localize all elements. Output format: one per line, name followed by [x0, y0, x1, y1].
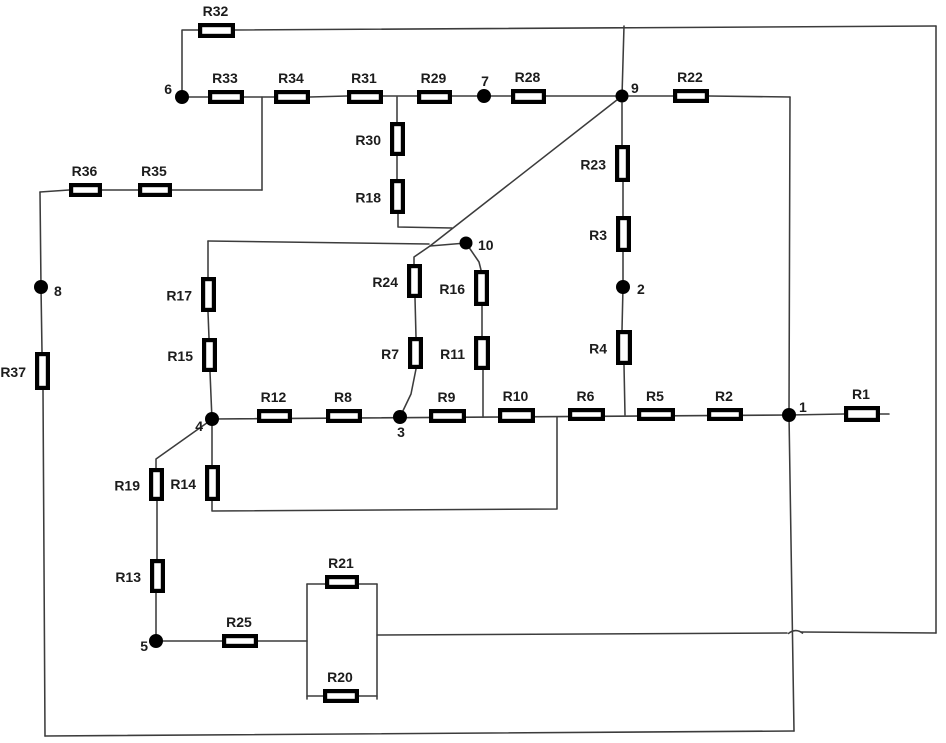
svg-text:1: 1	[799, 399, 807, 415]
wire R16 to R11	[481, 306, 483, 336]
svg-text:R28: R28	[515, 69, 541, 85]
wire node 2 to R4	[622, 287, 623, 330]
resistor R23	[580, 147, 628, 180]
node 4	[195, 412, 219, 434]
wire lower-right horizontal (right of hop)	[801, 632, 936, 633]
wire bottom bus	[45, 731, 794, 736]
resistor R34	[276, 70, 308, 102]
wire corner to R36	[40, 190, 69, 192]
svg-text:R7: R7	[381, 346, 399, 362]
resistor R36	[71, 163, 100, 195]
node 9	[616, 80, 640, 103]
resistor R18	[355, 181, 403, 212]
wire R30 to R18	[396, 156, 398, 179]
svg-text:R13: R13	[115, 569, 141, 585]
svg-text:R1: R1	[852, 386, 870, 402]
svg-text:R23: R23	[580, 157, 606, 173]
wire parallel box left rail	[306, 584, 308, 699]
resistor R11	[440, 338, 488, 368]
svg-text:R21: R21	[328, 555, 354, 571]
svg-text:R10: R10	[503, 388, 529, 404]
wire R24 to R7	[415, 298, 416, 337]
svg-text:4: 4	[195, 418, 203, 434]
resistor R10	[500, 388, 533, 421]
resistor R24	[372, 266, 420, 296]
wire node 9 to R22	[622, 95, 673, 97]
svg-text:9: 9	[631, 80, 639, 96]
wire R31 to R29	[383, 95, 417, 97]
svg-text:R14: R14	[170, 476, 196, 492]
resistor R2	[709, 388, 741, 419]
wire R13 to R19	[156, 501, 158, 559]
svg-text:R9: R9	[438, 389, 456, 405]
resistor R14	[170, 467, 218, 499]
svg-text:R15: R15	[167, 348, 193, 364]
resistor R1	[846, 386, 878, 420]
resistor R20	[325, 669, 357, 701]
svg-text:R36: R36	[72, 163, 98, 179]
svg-text:R5: R5	[646, 388, 664, 404]
resistor R3	[589, 218, 629, 250]
node 6	[164, 81, 189, 104]
wire junction to node 10	[430, 243, 466, 246]
resistor R9	[431, 389, 464, 421]
wire node 4 to R15	[210, 372, 212, 420]
resistor R28	[513, 69, 544, 102]
resistor R31	[349, 70, 381, 102]
wire R19 to node 4	[156, 420, 211, 468]
svg-text:R24: R24	[372, 274, 398, 290]
wire diagonal node 9 to node 10	[430, 96, 622, 246]
svg-text:R37: R37	[0, 364, 26, 380]
wire node 7 to R28	[484, 95, 511, 97]
svg-text:R2: R2	[715, 388, 733, 404]
resistor R25	[224, 614, 256, 646]
svg-text:R4: R4	[589, 341, 607, 357]
wire R22 to right corner	[709, 96, 790, 97]
resistor R6	[570, 388, 603, 419]
svg-text:R31: R31	[351, 70, 377, 86]
resistor R7	[381, 339, 421, 367]
svg-text:R12: R12	[261, 389, 287, 405]
resistor R13	[115, 561, 163, 591]
svg-text:R6: R6	[577, 388, 595, 404]
wire R23 to R3	[622, 182, 624, 216]
wire node 4 to R14	[211, 420, 213, 465]
svg-text:R35: R35	[141, 163, 167, 179]
wire upper-left horizontal to node 10	[208, 241, 429, 244]
wire R1 stub	[880, 413, 889, 415]
wire R15 to R17	[208, 312, 209, 338]
wire node 5 to R25	[156, 640, 222, 642]
wire right edge	[935, 26, 937, 633]
wire R37 to node 8 to corner	[40, 192, 42, 352]
resistor R33	[210, 70, 242, 102]
node 2	[616, 280, 645, 297]
wire lower horizontal to parallel box	[377, 633, 787, 635]
svg-text:R29: R29	[421, 70, 447, 86]
resistor R32	[200, 3, 233, 36]
wire R33 to R34	[244, 96, 274, 98]
svg-text:8: 8	[54, 283, 62, 299]
svg-text:R34: R34	[278, 70, 304, 86]
svg-text:R22: R22	[677, 69, 703, 85]
wire R30 riser to top row	[396, 97, 398, 122]
wire parallel box right rail	[376, 584, 378, 699]
svg-text:7: 7	[481, 73, 489, 89]
node 3	[393, 410, 407, 440]
wire R11 to bus	[482, 370, 484, 417]
node 8	[34, 280, 62, 299]
svg-text:R18: R18	[355, 190, 381, 206]
svg-text:R19: R19	[114, 478, 140, 494]
svg-text:R20: R20	[327, 669, 353, 685]
node 1	[782, 399, 807, 422]
wire main bottom bus node 4 to node 1	[212, 415, 789, 419]
resistor R37	[0, 354, 48, 388]
resistor R15	[167, 340, 215, 370]
svg-text:R32: R32	[203, 3, 229, 19]
wire R28 to node 9	[546, 95, 622, 97]
wire node 10 to R16	[466, 243, 481, 270]
svg-text:R25: R25	[226, 614, 252, 630]
wire R36 to R35	[102, 189, 138, 191]
resistor R4	[589, 332, 630, 363]
wire right vertical through node 1	[789, 97, 794, 731]
wire node 6 riser to R32	[182, 30, 198, 97]
resistor R5	[639, 388, 673, 419]
resistor R12	[259, 389, 290, 421]
svg-text:R16: R16	[439, 281, 465, 297]
wire R14 elbow to bus	[212, 417, 557, 511]
wire R7 to node 3	[400, 369, 416, 417]
svg-text:10: 10	[478, 237, 494, 253]
wire R18 elbow to diagonal	[398, 214, 452, 228]
resistor R35	[140, 163, 170, 195]
node 7	[477, 73, 491, 103]
resistor R19	[114, 470, 162, 499]
wire parallel box bottom rail	[307, 695, 377, 697]
wire R4 to bus	[624, 365, 625, 415]
svg-text:2: 2	[637, 281, 645, 297]
wire node 5 to R13	[155, 593, 157, 641]
node 5	[140, 634, 163, 654]
node 10	[460, 237, 494, 254]
wire junction to R24	[414, 246, 430, 264]
wire left edge	[43, 390, 45, 736]
wire R17 riser	[207, 241, 209, 277]
resistor R17	[166, 279, 214, 310]
svg-text:R30: R30	[355, 132, 381, 148]
svg-text:R3: R3	[589, 227, 607, 243]
resistor R21	[327, 555, 357, 587]
wire parallel box top rail	[307, 583, 377, 585]
resistor R16	[439, 272, 487, 304]
svg-text:5: 5	[140, 638, 148, 654]
wire riser to R33-R34 junction	[261, 97, 263, 190]
svg-text:R17: R17	[166, 288, 192, 304]
wire R25 to box	[258, 640, 307, 642]
resistor R30	[355, 124, 403, 154]
wire R35 to riser	[172, 189, 262, 191]
wire top bus	[235, 26, 936, 30]
svg-text:R11: R11	[440, 346, 465, 362]
wire node 9 to R23	[621, 103, 623, 145]
wire R3 to node 2	[622, 252, 624, 287]
resistor R29	[419, 70, 450, 102]
svg-text:R8: R8	[334, 389, 352, 405]
wire hop over vertical	[788, 631, 803, 634]
resistor R22	[675, 69, 707, 101]
wire node 1 to R1	[789, 414, 844, 415]
wire R29 to node 7	[452, 95, 484, 97]
svg-text:6: 6	[164, 81, 172, 97]
wire node 9 riser to top bus	[622, 26, 624, 96]
svg-text:R33: R33	[212, 70, 238, 86]
resistor R8	[328, 389, 360, 421]
wire R34 to R31	[310, 96, 347, 97]
wire node 6 to R33	[182, 96, 208, 98]
svg-text:3: 3	[397, 424, 405, 440]
